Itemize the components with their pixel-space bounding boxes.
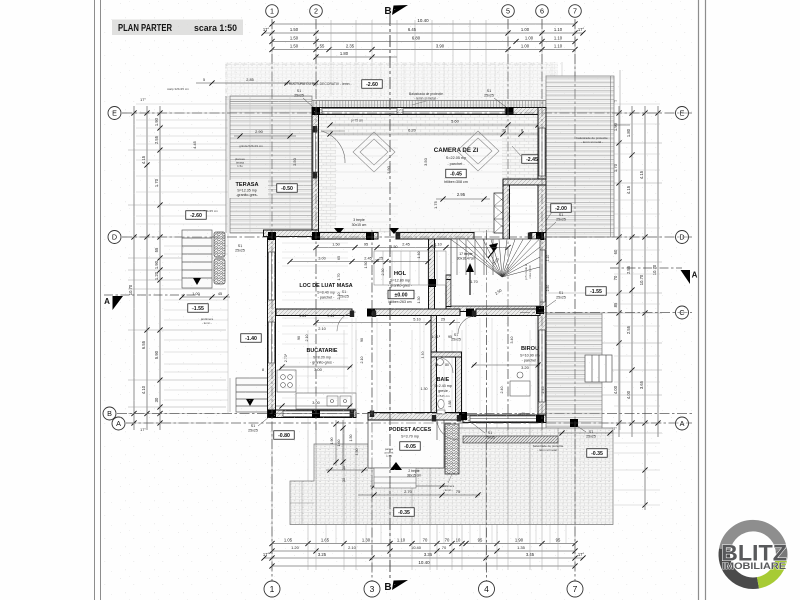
interior witness horizontals hol xyxy=(282,140,536,398)
stair landing wall horizontal xyxy=(446,275,502,280)
axis circle 4 bottom xyxy=(479,581,495,597)
witness lines over terrace hatch xyxy=(316,428,575,525)
chimney shaft with X bracing xyxy=(494,193,509,233)
alcove wall vertical xyxy=(503,180,510,239)
boxed level -0.35 terrace right xyxy=(587,449,608,458)
window north wall west part xyxy=(322,109,397,115)
jardiniera planter at entry xyxy=(445,424,459,474)
axis circle 6 top xyxy=(536,5,549,18)
axis circle 1 bottom xyxy=(264,581,280,597)
terrace seam lines xyxy=(249,96,251,233)
boxed level -1.40 xyxy=(241,334,262,343)
columns S1 25x25 black squares xyxy=(312,107,320,115)
wall B interior segment east xyxy=(476,309,540,316)
top band dimension line xyxy=(196,82,316,84)
page frame left double line xyxy=(94,0,96,600)
stair landing wall vertical xyxy=(446,280,451,307)
kitchen cooktop xyxy=(277,370,296,392)
terrace dim 2.40 2.70 75 xyxy=(370,485,446,487)
window north wall east part xyxy=(403,109,505,115)
BLITZ IMOBILIARE logo ring xyxy=(724,526,781,584)
alcove wall horizontal xyxy=(503,179,546,185)
boxed level -0.35 terrace centre xyxy=(394,508,415,517)
axis circle 5 top xyxy=(502,5,515,18)
section marker A right xyxy=(681,270,691,284)
west planter 1 xyxy=(214,232,225,257)
stair lower flight rect xyxy=(374,251,446,285)
bathroom north wall xyxy=(431,352,462,357)
upper right deck inner edge line xyxy=(610,76,612,237)
stair south wall xyxy=(446,306,540,312)
west wall xyxy=(268,233,276,418)
bottom dimension chains xyxy=(261,538,585,569)
axis circle E right xyxy=(676,107,689,120)
room label CAMERA DE ZI xyxy=(434,147,479,166)
vertical axis lines xyxy=(271,19,273,581)
bathroom west wall xyxy=(431,316,437,418)
axis circle 1 top xyxy=(266,5,279,18)
door arc kitchen xyxy=(337,312,356,331)
west stair down arrow xyxy=(193,278,201,285)
horizontal axis line C right side xyxy=(520,312,692,314)
entry door arc xyxy=(437,419,458,440)
window east wall lower xyxy=(539,330,545,402)
axis circle A left xyxy=(112,417,125,430)
birou dim line 3.20 xyxy=(472,364,540,366)
wall D axis segment middle xyxy=(396,233,474,240)
wall D axis segment west xyxy=(319,233,379,240)
door arc baie xyxy=(437,357,453,373)
south wall birou segment xyxy=(463,415,546,423)
south wall kitchen segment xyxy=(268,410,357,418)
stair direction arrows bold xyxy=(469,268,471,295)
svg-text:IMOBILIARE: IMOBILIARE xyxy=(722,560,786,571)
left dimension chains xyxy=(128,98,163,432)
niche arrow symbol xyxy=(514,257,526,263)
interior dim row y261 xyxy=(290,261,428,263)
room label TERASA xyxy=(228,180,268,198)
left boundary line xyxy=(227,96,229,413)
room label LOC DE LUAT MASA xyxy=(299,283,352,300)
north wall camera de zi xyxy=(312,108,546,115)
horizontal axis line A xyxy=(126,422,692,424)
axis circle 2 top xyxy=(310,5,323,18)
boxed level -2.60 top xyxy=(362,80,383,89)
entry steps 2 trepte xyxy=(374,462,421,488)
door arc birou xyxy=(458,316,476,334)
room label HOL xyxy=(388,271,413,288)
camera de zi dim line 5.60 xyxy=(330,124,630,126)
wall hol-east vertical xyxy=(429,239,435,309)
page frame right double line xyxy=(698,0,700,600)
boxed level -0.05 xyxy=(400,442,421,451)
dim rows left of podest xyxy=(326,469,368,471)
bottom witness lines xyxy=(272,330,575,570)
boxed level -2.45 xyxy=(522,155,543,164)
terrace deck TERASA floor hatch xyxy=(230,96,312,233)
main staircase winder treads xyxy=(451,239,540,306)
axis circle B left xyxy=(103,407,116,420)
boxed level -2.60 left xyxy=(186,211,207,220)
east wall xyxy=(538,108,546,422)
section line A-A left stub xyxy=(104,294,200,296)
boxed level -2.00 xyxy=(551,204,572,213)
roof tile ghost above house xyxy=(225,62,558,100)
section line A-A right stub xyxy=(610,267,682,269)
axis circle 7 bottom xyxy=(567,581,583,597)
terrace south wall xyxy=(264,230,319,237)
bathroom fixtures xyxy=(437,359,445,414)
axis circle E left xyxy=(108,107,121,120)
west stair dims xyxy=(182,296,230,298)
furniture diamond 2 xyxy=(457,131,499,171)
west planter 2 xyxy=(214,259,225,284)
horizontal axis line E xyxy=(122,112,692,114)
title block PLAN PARTER scara 1:50 xyxy=(112,20,243,36)
door terasa xyxy=(313,130,318,172)
horizontal axis line B xyxy=(117,413,692,415)
right dimension chains xyxy=(611,100,660,510)
terrace left edge double line xyxy=(225,96,227,233)
furniture diamond 1 xyxy=(353,132,395,172)
bottom terrace floor hatch xyxy=(290,428,613,525)
west exterior stair treads xyxy=(182,230,212,288)
boxed level 0.00 hol xyxy=(388,290,414,299)
top witness lines xyxy=(272,20,575,233)
birou desk xyxy=(510,372,530,396)
right exterior steps xyxy=(585,355,612,382)
window kitchen south xyxy=(283,411,350,417)
steps arrows on south wall of camera xyxy=(334,228,344,234)
terrace right top dims xyxy=(558,432,613,434)
southwest exterior steps xyxy=(230,378,268,412)
boxed level -0.80 xyxy=(274,431,295,440)
axis circle 3 bottom xyxy=(364,581,380,597)
wall D axis segment east xyxy=(530,233,546,240)
door arc terasa to camera xyxy=(321,131,345,163)
camera de zi dim line 6.20 xyxy=(330,133,538,135)
room label BUCATARIE xyxy=(307,348,338,372)
boxed level -1.55 right xyxy=(586,287,607,296)
roof overhang dashed outline xyxy=(226,63,548,65)
southwest steps arrow xyxy=(246,399,254,406)
axis circle A right xyxy=(676,417,689,430)
bucatarie dim line 3.00 xyxy=(280,366,352,368)
top dimension chains xyxy=(261,18,585,60)
boxed level -0.50 terrace xyxy=(277,184,298,193)
window west wall lower xyxy=(269,322,275,363)
axis circle D left xyxy=(108,231,121,244)
south balustrade band xyxy=(463,436,558,443)
scan speckle overlay xyxy=(101,0,698,600)
upper right deck floor hatch xyxy=(546,76,614,237)
decorative timber band top (structura cu rol decorativ) xyxy=(230,101,548,109)
living room CAMERA DE ZI floor tile hatch xyxy=(318,115,538,233)
south wall entry segment xyxy=(368,413,463,421)
terrace east wall xyxy=(312,114,319,239)
wall B interior segment west xyxy=(276,309,352,316)
room label BIROU xyxy=(520,346,540,370)
boxed level -0.45 camera de zi xyxy=(446,169,467,178)
kitchen counter xyxy=(296,393,356,409)
interior dim row y247 xyxy=(316,247,508,249)
axis lines overlay on top of hatches xyxy=(117,14,692,581)
boxed level -1.55 left xyxy=(188,304,209,313)
axis circle C right xyxy=(676,306,689,319)
dim row above south wall xyxy=(276,405,352,407)
interior witness verticals kitchen-baie xyxy=(352,318,536,412)
window east wall middle xyxy=(539,250,545,302)
axis circle 7 top xyxy=(569,5,582,18)
window birou south xyxy=(470,416,540,422)
window west wall upper xyxy=(269,252,275,300)
lower right deck floor hatch xyxy=(546,313,602,430)
room label BAIE xyxy=(434,377,451,398)
section line B-B vertical xyxy=(389,14,391,578)
stair lower flight treads xyxy=(383,251,437,285)
bathroom east wall xyxy=(456,352,462,417)
axis circle D right xyxy=(676,231,689,244)
right witness lines xyxy=(548,104,662,505)
entry landing PODEST ACCES white area xyxy=(368,420,444,468)
interior dim row y322 5.10 xyxy=(316,322,460,324)
terrace step edge lines bottom-left xyxy=(290,502,314,504)
window east wall upper xyxy=(539,128,545,176)
wall B interior segment middle xyxy=(372,309,460,316)
left witness lines xyxy=(128,104,228,423)
terrace top band edge lines xyxy=(230,101,312,103)
camera de zi white centre xyxy=(336,136,502,228)
door jamb blocks xyxy=(432,415,436,422)
horizontal axis line D xyxy=(122,236,692,238)
